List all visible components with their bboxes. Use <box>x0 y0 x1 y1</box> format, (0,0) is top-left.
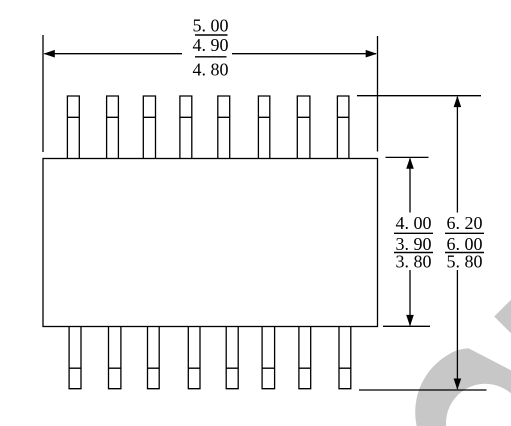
pin 4 top <box>180 96 192 159</box>
extension line right (width dim) <box>377 36 379 152</box>
arrowhead down (overall height dim) <box>454 379 462 390</box>
pin 14 bottom <box>262 327 275 389</box>
extension line body top level <box>386 156 429 158</box>
pin 9 bottom <box>69 327 81 389</box>
underline under 5.00 <box>195 34 228 36</box>
pin 12 bottom <box>188 327 200 389</box>
overall height dim lower shaft <box>456 270 458 389</box>
dimension line width left segment <box>45 53 183 55</box>
svg-text:5. 00: 5. 00 <box>193 16 229 36</box>
svg-text:4. 00: 4. 00 <box>396 213 432 233</box>
watermark diamond (logo fragment) <box>494 292 511 341</box>
pin 11 bottom <box>148 327 160 389</box>
pin 13 bottom <box>226 327 238 389</box>
svg-text:6. 20: 6. 20 <box>447 213 483 233</box>
pin 5 top <box>218 96 230 159</box>
pin 15 bottom <box>299 327 311 389</box>
arrowhead left (width dim) <box>44 50 55 58</box>
package body outline <box>43 159 378 327</box>
body height dim lower shaft <box>409 270 411 325</box>
pin 3 top <box>143 96 155 159</box>
pin 1 top <box>67 96 79 159</box>
pin 16 bottom <box>339 327 351 389</box>
pin 10 bottom <box>109 327 121 389</box>
underline under 4.90 <box>195 56 227 58</box>
underline under 3.90 <box>394 252 433 254</box>
extension line pins top level <box>357 95 481 97</box>
arrowhead right (width dim) <box>366 50 377 58</box>
pin 2 top <box>107 96 119 159</box>
svg-text:5. 80: 5. 80 <box>447 251 483 271</box>
arrowhead down (body height dim) <box>406 315 414 326</box>
arrowhead up (overall height dim) <box>454 96 462 107</box>
body height dim upper shaft <box>409 159 411 213</box>
underline under 6.20 <box>445 232 484 234</box>
watermark arc (logo fragment) <box>415 348 511 426</box>
extension line pins bottom level <box>359 389 487 391</box>
underline under 4.00 <box>394 232 433 234</box>
dimension line width right segment <box>232 53 376 55</box>
overall height dim upper shaft <box>456 97 458 213</box>
svg-text:3. 80: 3. 80 <box>396 251 432 271</box>
svg-text:4. 90: 4. 90 <box>193 35 229 55</box>
pin 8 top <box>337 96 349 159</box>
pin 6 top <box>258 96 269 159</box>
arrowhead up (body height dim) <box>406 158 414 169</box>
underline under 6.00 <box>445 252 484 254</box>
extension line left (width dim) <box>42 35 44 152</box>
svg-text:4. 80: 4. 80 <box>193 60 229 80</box>
extension line body bottom level <box>383 325 430 327</box>
pin 7 top <box>297 96 310 159</box>
